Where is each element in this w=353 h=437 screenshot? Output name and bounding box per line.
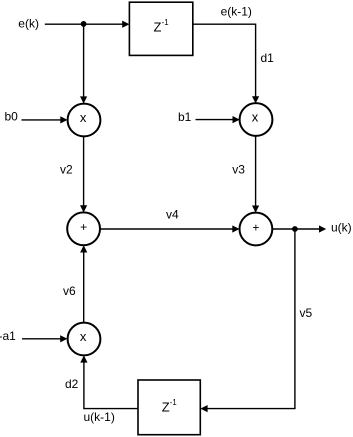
adder A1 [67,212,100,245]
svg-text:e(k-1): e(k-1) [221,5,252,19]
svg-text:e(k): e(k) [18,16,39,30]
svg-text:-1: -1 [170,398,177,407]
svg-text:v6: v6 [63,284,76,298]
svg-text:Z: Z [162,400,170,415]
svg-text:x: x [80,110,87,125]
svg-text:Z: Z [154,19,162,34]
arrowhead into adder A2 top [252,206,259,213]
wire junction A down to multiplier M1 [83,24,85,97]
svg-text:+: + [252,220,259,234]
adder A2 [240,213,273,246]
svg-text:x: x [252,110,259,125]
junction dot node B on u(k) wire [292,226,298,232]
svg-text:v3: v3 [232,162,245,176]
arrowhead into multiplier M2 left [233,116,240,123]
arrowhead into multiplier M1 left [60,116,67,123]
svg-text:b1: b1 [178,110,192,124]
wire multiplier M1 down to adder A1 (net v2) [83,137,85,207]
delay box Z2 [138,380,200,435]
svg-text:u(k-1): u(k-1) [84,410,115,424]
arrowhead into multiplier M2 top [252,96,259,103]
wire adder A2 to output u(k) [272,228,320,230]
wire junction B down then left into delay box Z2 (net v5) [207,229,295,409]
junction dot node A on e(k) wire [81,21,87,27]
svg-text:-a1: -a1 [0,329,16,343]
svg-text:u(k): u(k) [331,220,352,234]
multiplier M3 [68,323,101,356]
wire -a1 to multiplier M3 [22,338,61,340]
arrowhead into adder A1 bottom [80,245,87,252]
arrowhead into multiplier M3 bottom [80,355,87,362]
arrowhead into multiplier M1 top [80,96,87,103]
wire box Z1 output right then down to multiplier M2 (net d1) [193,24,256,97]
wire adder A1 to adder A2 (net v4) [100,228,233,230]
svg-text:v4: v4 [166,208,179,222]
svg-text:x: x [80,329,87,344]
svg-text:-1: -1 [162,18,169,27]
wire e(k) to delay box Z1 [45,23,123,25]
svg-text:d1: d1 [261,51,275,65]
wire box Z2 output left then up to multiplier M3 [84,362,138,409]
arrowhead into adder A1 top [80,205,87,212]
svg-text:v2: v2 [60,163,73,177]
multiplier M2 [240,103,273,136]
delay box Z1 [129,2,192,55]
arrowhead to u(k) [319,225,326,232]
svg-text:b0: b0 [5,110,19,124]
arrowhead into delay box Z1 [122,21,129,28]
svg-text:d2: d2 [65,377,79,391]
arrowhead into delay box Z2 right [200,405,207,412]
arrowhead into adder A2 left [232,225,239,232]
wire multiplier M2 down to adder A2 (net v3) [255,136,257,207]
arrowhead into multiplier M3 left [60,335,67,342]
wire b0 to multiplier M1 [22,119,62,121]
multiplier M1 [68,104,101,137]
svg-text:+: + [80,220,87,234]
svg-text:v5: v5 [300,306,313,320]
wire b1 to multiplier M2 [196,119,234,121]
wire multiplier M3 up to adder A1 (net v6) [83,251,85,322]
